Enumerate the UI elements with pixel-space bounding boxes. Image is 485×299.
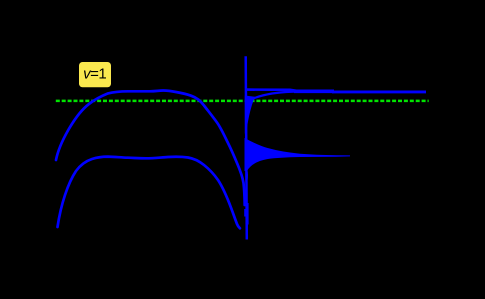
yellow annotation box [79, 62, 111, 87]
green dashed reference line y=1 [56, 100, 429, 103]
curve B: lower smooth bump (left panel) [58, 157, 240, 229]
upper-right settled approximation line to x=426 [332, 90, 426, 93]
lower-right first undershoot lobe along the jump line [245, 170, 248, 181]
dense oscillation nub left of jump line [244, 209, 246, 217]
svg-text:v=1: v=1 [83, 66, 106, 83]
upper-right merged thick segment [294, 90, 334, 94]
upper-right Gibbs envelope wedge fill at jump [245, 96, 255, 134]
curve A: upper smooth bump (left panel) [56, 90, 245, 205]
jump discontinuity vertical line with Gibbs overshoot spike [246, 56, 247, 239]
lower-right Gibbs horn (filled envelope) settling to y=156 [245, 139, 350, 171]
upper-right envelope: top branch (overshoot side) [247, 90, 299, 91]
dense oscillation bulge right of jump line [247, 203, 249, 225]
upper-right envelope: lower branch rising to settled line [247, 92, 294, 101]
